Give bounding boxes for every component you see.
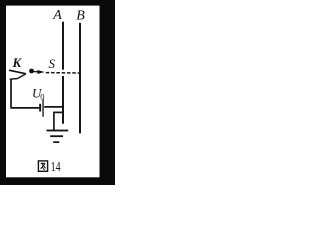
scan frame: top bar <box>0 0 115 6</box>
scan frame: left strip <box>0 0 6 185</box>
beam arrow from S <box>34 71 39 73</box>
svg-text:K: K <box>12 55 23 70</box>
plate B (vertical line) <box>79 23 81 134</box>
scan frame: bottom bar <box>0 177 115 185</box>
svg-text:S: S <box>49 56 56 71</box>
wire: battery to plate A <box>44 106 64 108</box>
node S (source dot) <box>29 69 34 74</box>
svg-text:B: B <box>76 9 85 24</box>
wire: ground tap from plate A <box>53 111 64 113</box>
svg-text:A: A <box>52 8 62 23</box>
caption 图 (hand-drawn glyph) <box>38 161 47 171</box>
svg-text:14: 14 <box>51 159 61 174</box>
switch lower contact wire <box>10 74 26 79</box>
scan frame: right strip <box>100 0 116 185</box>
switch K blade <box>9 70 26 74</box>
ground symbol <box>47 130 69 143</box>
beam dashed trajectory to plate B <box>46 72 80 74</box>
wire: left vertical from switch down <box>10 79 12 108</box>
battery positive plate (long thin) <box>42 99 43 117</box>
wire: ground drop vertical <box>53 112 55 131</box>
battery negative plate (short thick) <box>39 104 41 112</box>
plate A (vertical line with hole at beam) <box>62 22 64 124</box>
wire: bottom horizontal to battery <box>10 107 39 109</box>
